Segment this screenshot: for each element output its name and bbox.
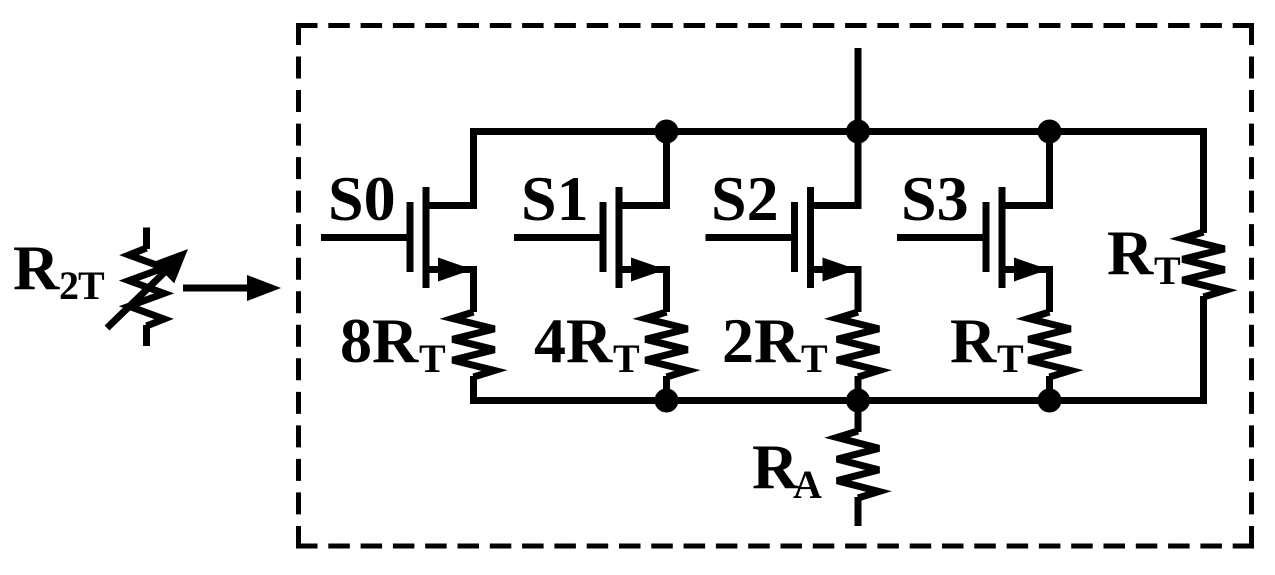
transistor Q0 gate bar [407, 202, 414, 272]
variable resistor R2T zigzag [129, 248, 164, 326]
transistor Q2 drain lead [811, 132, 859, 206]
junction dot bottom S1 [655, 389, 679, 413]
svg-text:S1: S1 [521, 163, 589, 234]
svg-text:T: T [997, 336, 1024, 381]
variable resistor R2T bottom lead [143, 325, 150, 346]
svg-text:2R: 2R [722, 305, 801, 376]
svg-text:A: A [793, 462, 822, 507]
resistor R_T zigzag [1029, 312, 1071, 377]
resistor 4R_T zigzag [646, 312, 688, 377]
junction dot top supply [846, 120, 870, 144]
svg-text:T: T [419, 336, 446, 381]
svg-text:R: R [752, 431, 799, 502]
bottom rail wire [470, 397, 1207, 404]
svg-text:R: R [950, 305, 997, 376]
svg-text:8R: 8R [340, 305, 419, 376]
transistor Q2 channel bar [807, 187, 814, 288]
transistor Q0 source arrow [438, 258, 473, 282]
resistor R_A top lead [855, 401, 862, 433]
variable resistor R2T top lead [143, 228, 150, 250]
svg-text:T: T [613, 336, 640, 381]
wire resistor bottom to bottom rail [470, 376, 477, 404]
transistor Q2 (S2 switch) gate lead wire [706, 234, 799, 241]
resistor R_A zigzag [837, 431, 879, 498]
resistor R_T right zigzag [1183, 232, 1225, 297]
supply stub wire [855, 48, 862, 132]
svg-text:T: T [801, 336, 828, 381]
transistor Q1 channel bar [616, 187, 623, 288]
wire resistor bottom to bottom rail [663, 376, 670, 404]
transistor Q1 source arrow [631, 258, 666, 282]
svg-text:R: R [1107, 217, 1154, 288]
transistor Q0 drain lead [426, 132, 474, 206]
junction dot bottom RA [846, 389, 870, 413]
svg-text:T: T [78, 263, 105, 308]
svg-text:4R: 4R [534, 305, 613, 376]
junction dot top S1 [655, 120, 679, 144]
transistor Q3 drain lead [1002, 132, 1050, 206]
dashed enclosure top edge [296, 23, 1254, 28]
pointer arrow shaft to box [183, 285, 252, 292]
junction dot bottom S3 [1038, 389, 1062, 413]
transistor Q0 (S0 switch) gate lead wire [321, 234, 414, 241]
junction dot top S3 [1038, 120, 1062, 144]
transistor Q2 gate bar [791, 202, 798, 272]
transistor Q1 source lead [619, 270, 667, 313]
resistor R_A bottom lead [855, 497, 862, 526]
svg-text:R: R [13, 232, 60, 303]
pointer arrowhead [247, 275, 281, 301]
top rail wire [470, 128, 1207, 135]
svg-text:2: 2 [59, 263, 79, 308]
svg-text:S2: S2 [711, 163, 779, 234]
svg-text:S0: S0 [328, 163, 396, 234]
transistor Q3 source arrow [1014, 258, 1049, 282]
transistor Q0 channel bar [423, 187, 430, 288]
wire resistor bottom to bottom rail [855, 376, 862, 404]
right branch wire top [1200, 132, 1207, 234]
transistor Q1 (S1 switch) gate lead wire [514, 234, 607, 241]
wire resistor bottom to bottom rail [1046, 376, 1053, 404]
right branch wire bottom [1200, 296, 1207, 401]
transistor Q3 (S3 switch) gate lead wire [897, 234, 990, 241]
transistor Q1 gate bar [600, 202, 607, 272]
dashed enclosure bottom edge [296, 544, 1254, 549]
transistor Q1 drain lead [619, 132, 667, 206]
transistor Q2 source lead [811, 270, 859, 313]
transistor Q3 gate bar [983, 202, 990, 272]
dashed enclosure right edge [1249, 23, 1254, 549]
svg-text:S3: S3 [901, 163, 969, 234]
transistor Q0 source lead [426, 270, 474, 313]
transistor Q3 channel bar [999, 187, 1006, 288]
variable resistor R2T diagonal arrow shaft [107, 265, 172, 328]
transistor Q2 source arrow [823, 258, 858, 282]
svg-text:T: T [1154, 248, 1181, 293]
transistor Q3 source lead [1002, 270, 1050, 313]
resistor 2R_T zigzag [837, 312, 879, 377]
variable resistor R2T diagonal arrowhead [153, 249, 188, 283]
dashed enclosure left edge [296, 23, 301, 549]
resistor 8R_T zigzag [453, 312, 495, 377]
